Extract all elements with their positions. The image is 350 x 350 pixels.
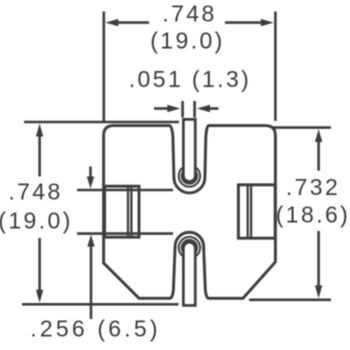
extension line right top bbox=[272, 126, 331, 129]
arrowhead right height down bbox=[315, 285, 322, 298]
tick slot width right bbox=[193, 101, 196, 118]
pin bottom bbox=[184, 242, 196, 305]
extension line tab top bbox=[77, 189, 173, 192]
dimension line top width right segment bbox=[225, 21, 262, 24]
arrowhead left height up bbox=[36, 124, 43, 137]
tab left inner lines bbox=[128, 186, 131, 237]
dimension line left height upper segment bbox=[38, 134, 41, 177]
extension line tab bottom bbox=[77, 232, 173, 235]
body outline with slots and chamfered corners bbox=[104, 126, 276, 299]
svg-text:(18.6): (18.6) bbox=[276, 202, 350, 228]
svg-text:.748: .748 bbox=[8, 178, 62, 204]
tab left bbox=[105, 186, 139, 237]
leader line offset dimension bbox=[90, 245, 93, 319]
ring bottom terminal bbox=[179, 237, 200, 258]
arrowhead top width left bbox=[105, 19, 118, 26]
svg-text:.748: .748 bbox=[162, 1, 216, 27]
arrowhead tab top down bbox=[87, 177, 94, 189]
extension line top-left width bbox=[103, 12, 106, 123]
dimension line right height lower segment bbox=[317, 231, 320, 287]
arrowhead right height up bbox=[315, 129, 322, 142]
svg-text:.732: .732 bbox=[286, 174, 340, 200]
leader line tab-top arrow bbox=[89, 167, 92, 179]
tab right inner lines bbox=[248, 185, 251, 238]
dimension line left height lower segment bbox=[38, 238, 41, 291]
extension line pin-bottom level bbox=[22, 303, 179, 306]
arrowhead slot width left bbox=[167, 105, 180, 112]
pin top bbox=[184, 120, 196, 182]
extension line right bottom bbox=[249, 298, 331, 301]
ring top terminal bbox=[179, 165, 200, 186]
extension line top-right width bbox=[274, 12, 277, 122]
arrowhead slot width right bbox=[197, 105, 210, 112]
svg-text:(19.0): (19.0) bbox=[150, 27, 224, 53]
svg-text:(19.0): (19.0) bbox=[0, 207, 73, 233]
svg-text:.051 (1.3): .051 (1.3) bbox=[129, 66, 251, 92]
tick slot width left bbox=[181, 101, 184, 118]
dimension line top width left segment bbox=[117, 21, 149, 24]
svg-text:.256 (6.5): .256 (6.5) bbox=[30, 316, 160, 342]
dimension line right height upper segment bbox=[317, 140, 320, 171]
dimension tail slot width right bbox=[210, 107, 219, 110]
arrowhead tab bottom up bbox=[87, 235, 94, 247]
arrowhead left height down bbox=[36, 290, 43, 303]
arrowhead top width right bbox=[261, 19, 274, 26]
tab right bbox=[238, 185, 275, 238]
dimension tail slot width left bbox=[154, 107, 168, 110]
extension line pin-top level bbox=[24, 121, 179, 124]
